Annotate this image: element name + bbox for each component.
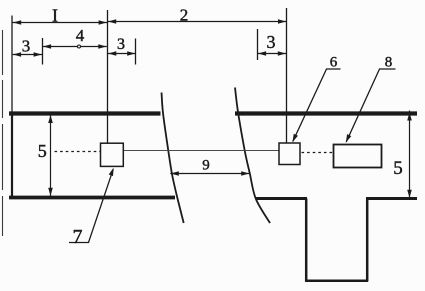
svg-text:9: 9 bbox=[202, 158, 210, 174]
svg-text:3: 3 bbox=[267, 32, 276, 52]
dotted line from block 6 to block 8 bbox=[302, 152, 334, 154]
right plate bottom rail right segment bbox=[366, 197, 417, 200]
thin line from block 7 to block 6 bbox=[124, 150, 280, 152]
svg-text:3: 3 bbox=[22, 36, 31, 55]
dotted line from dim 5 to block 7 bbox=[55, 151, 101, 153]
svg-text:8: 8 bbox=[385, 54, 393, 70]
svg-text:I: I bbox=[52, 6, 58, 26]
scan border artifact left edge bbox=[2, 30, 4, 236]
left plate left edge bbox=[11, 112, 13, 199]
dimension 5 left line bbox=[50, 115, 52, 197]
dimension 2 line bbox=[107, 21, 286, 23]
dimension 3 left line bbox=[13, 54, 42, 56]
svg-text:5: 5 bbox=[38, 141, 47, 161]
left break curve bbox=[162, 93, 184, 224]
svg-text:2: 2 bbox=[180, 6, 189, 25]
dimension 4 line bbox=[43, 46, 107, 48]
svg-text:4: 4 bbox=[76, 26, 85, 45]
left plate bottom rail bbox=[9, 196, 175, 200]
svg-text:3: 3 bbox=[117, 36, 125, 53]
tick x136 bbox=[135, 39, 137, 65]
channel left wall bbox=[305, 199, 308, 282]
block 6 bbox=[279, 143, 300, 165]
dimension 1 line bbox=[13, 22, 108, 24]
extension line mid x107 bbox=[107, 10, 109, 143]
block 7 bbox=[101, 143, 124, 166]
dimension 3 mid line bbox=[108, 53, 136, 55]
right break curve bbox=[235, 88, 270, 224]
dimension 3 right line bbox=[258, 53, 287, 55]
left plate top rail bbox=[9, 111, 161, 115]
svg-text:5: 5 bbox=[393, 158, 403, 179]
right plate bottom rail left segment bbox=[256, 197, 307, 200]
block 8 bbox=[334, 145, 382, 168]
dimension 5 right line bbox=[409, 111, 411, 199]
leader 7 bbox=[69, 169, 113, 242]
channel right wall bbox=[366, 199, 369, 282]
extension line left x12 bbox=[11, 16, 13, 113]
dimension 4 center circle bbox=[78, 45, 81, 48]
extension line right x286 bbox=[286, 8, 288, 143]
leader 6 bbox=[293, 69, 341, 142]
svg-text:6: 6 bbox=[330, 54, 338, 70]
svg-text:7: 7 bbox=[73, 226, 83, 248]
right plate top rail bbox=[235, 111, 417, 115]
channel bottom bbox=[305, 280, 368, 283]
leader 8 bbox=[346, 69, 395, 142]
dimension 9 line bbox=[170, 173, 249, 175]
tick x257 bbox=[257, 29, 259, 60]
tick x42 bbox=[42, 38, 44, 65]
